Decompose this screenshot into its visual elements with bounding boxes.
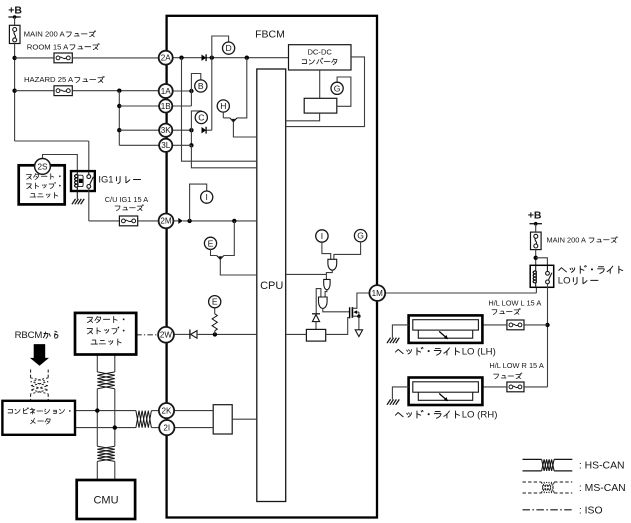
svg-text:I: I [321, 231, 323, 241]
svg-text:2A: 2A [161, 54, 172, 63]
svg-text:H/L LOW L 15 A: H/L LOW L 15 A [488, 299, 541, 308]
svg-text:1B: 1B [161, 102, 171, 111]
svg-text:2S: 2S [37, 162, 48, 171]
svg-text:: ISO: : ISO [579, 505, 603, 516]
svg-text:E: E [208, 238, 214, 248]
svg-text:CMU: CMU [93, 495, 118, 507]
svg-text:FBCM: FBCM [255, 28, 285, 40]
svg-text:MAIN 200 A: MAIN 200 A [24, 30, 66, 39]
svg-text:2K: 2K [162, 406, 173, 415]
svg-text:G: G [334, 83, 341, 93]
svg-text:1: 1 [108, 174, 113, 185]
svg-text:C/U IG1 15 A: C/U IG1 15 A [105, 195, 149, 204]
svg-text:2I: 2I [163, 423, 170, 432]
svg-text:MAIN 200 A: MAIN 200 A [547, 235, 587, 244]
svg-text:1M: 1M [372, 289, 384, 298]
svg-text:G: G [101, 174, 108, 185]
svg-text:DC-DC: DC-DC [307, 48, 332, 57]
svg-text:+B: +B [528, 209, 542, 221]
svg-text:2W: 2W [160, 331, 173, 340]
svg-text:3L: 3L [161, 141, 171, 150]
svg-text:ROOM 15 A: ROOM 15 A [27, 42, 69, 51]
svg-text:M: M [34, 330, 42, 341]
svg-text:LO: LO [558, 276, 571, 287]
svg-text:LO (LH): LO (LH) [462, 346, 496, 357]
svg-text:H: H [220, 101, 226, 111]
svg-text:+B: +B [8, 5, 22, 17]
svg-text:2M: 2M [160, 217, 172, 226]
svg-text:1A: 1A [161, 87, 172, 96]
svg-text:HAZARD 25 A: HAZARD 25 A [24, 75, 74, 84]
svg-text:3K: 3K [161, 126, 172, 135]
svg-text:CPU: CPU [260, 280, 283, 292]
svg-text:I: I [206, 192, 208, 202]
svg-text:B: B [198, 81, 204, 91]
svg-text:H/L LOW R 15 A: H/L LOW R 15 A [489, 361, 543, 370]
svg-text:G: G [357, 231, 364, 241]
svg-text:LO (RH): LO (RH) [462, 409, 498, 420]
svg-text:D: D [225, 43, 231, 53]
svg-text:: MS-CAN: : MS-CAN [579, 483, 626, 494]
svg-text:E: E [212, 297, 218, 307]
svg-text:: HS-CAN: : HS-CAN [579, 460, 625, 471]
svg-text:C: C [198, 113, 204, 123]
